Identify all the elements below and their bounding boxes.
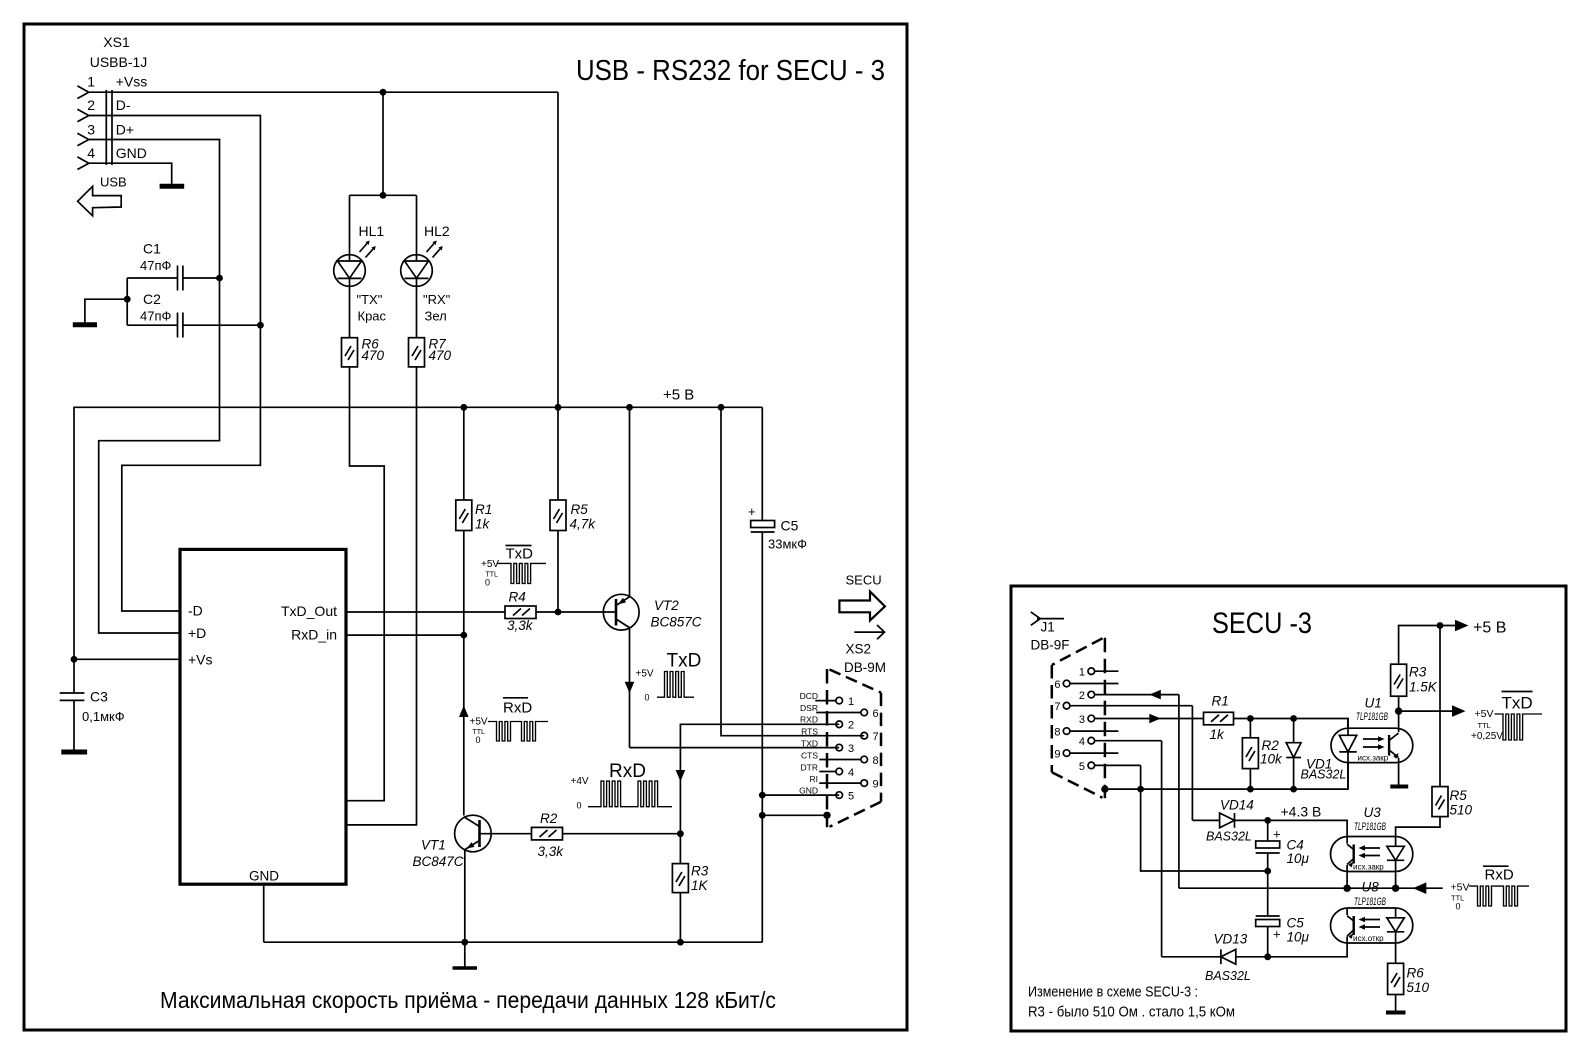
svg-text:R3 - было 510 Ом . стало 1,5: R3 - было 510 Ом . стало 1,5 кОм: [1028, 1004, 1235, 1021]
svg-text:исх.закр: исх.закр: [1358, 754, 1389, 763]
ground under XS1 pin4: [160, 184, 185, 189]
svg-text:R2: R2: [540, 811, 558, 826]
connector J1 symbol: [1031, 612, 1064, 625]
svg-text:0: 0: [1456, 902, 1461, 912]
svg-text:DB-9F: DB-9F: [1031, 638, 1070, 653]
svg-text:+: +: [1273, 927, 1281, 942]
IC box: [180, 549, 346, 884]
RxD input arrow: [1413, 882, 1427, 894]
junction U3 U8 right: [1392, 885, 1399, 892]
svg-text:10μ: 10μ: [1287, 851, 1310, 866]
svg-text:VT2: VT2: [654, 598, 679, 613]
wire IC GND down: [263, 884, 265, 942]
svg-text:GND: GND: [799, 786, 818, 796]
svg-text:8: 8: [873, 755, 879, 767]
svg-text:HL2: HL2: [424, 223, 450, 239]
junction R1 R2: [1247, 715, 1254, 722]
svg-text:VD13: VD13: [1214, 932, 1248, 947]
svg-text:Зел: Зел: [425, 309, 447, 324]
svg-text:U3: U3: [1364, 805, 1382, 820]
wire R2 to RXD node: [563, 833, 681, 835]
pin 2 arrow: [77, 109, 88, 122]
wire R4 to VT2 base: [536, 611, 616, 613]
svg-text:1: 1: [87, 74, 95, 90]
wire pin7 to VD14: [1191, 706, 1193, 821]
pin 4 arrow: [77, 157, 88, 170]
svg-text:исх.откр: исх.откр: [1353, 934, 1384, 943]
svg-text:USB - RS232 for SECU - 3: USB - RS232 for SECU - 3: [576, 55, 885, 87]
svg-text:R4: R4: [509, 590, 526, 605]
svg-text:6: 6: [1054, 679, 1060, 691]
svg-text:+5 В: +5 В: [1473, 620, 1506, 637]
svg-text:USB: USB: [100, 175, 127, 190]
svg-text:4: 4: [848, 767, 854, 779]
LED HL1: [334, 195, 376, 337]
wire pin2 vertical: [1178, 695, 1180, 889]
svg-text:SECU -3: SECU -3: [1212, 607, 1312, 640]
svg-text:HL1: HL1: [359, 223, 385, 239]
left panel frame: [24, 24, 907, 1030]
svg-text:+5V: +5V: [1451, 882, 1470, 894]
capacitor C1: [127, 266, 219, 291]
capacitor C3: [60, 659, 85, 749]
SECU thin arrow: [854, 625, 884, 639]
pin 3 arrow: [77, 133, 88, 146]
junction LED branch: [380, 192, 387, 199]
capacitor C4: [1256, 820, 1280, 916]
junction bus shell: [1101, 785, 1108, 792]
svg-text:47пФ: 47пФ: [140, 309, 171, 324]
J1 pin 4: [1079, 736, 1162, 748]
resistor R5: [550, 500, 566, 612]
svg-text:TLP181GB: TLP181GB: [1354, 821, 1386, 833]
SECU big arrow: [839, 592, 885, 621]
svg-text:4,7k: 4,7k: [570, 517, 597, 532]
+5V rail: [74, 407, 762, 659]
connector XS2 dashed outline: [827, 669, 881, 827]
svg-text:"RX": "RX": [423, 292, 451, 307]
svg-text:9: 9: [1054, 749, 1060, 761]
wire TxD TTL output: [1399, 710, 1452, 712]
svg-text:6: 6: [873, 708, 879, 720]
junction rail VT2 emitter: [626, 404, 633, 411]
waveform TxD-bar label overline: [506, 545, 532, 547]
svg-text:7: 7: [1054, 701, 1060, 713]
svg-text:GND: GND: [116, 145, 147, 161]
svg-text:+5 В: +5 В: [663, 387, 694, 404]
ground under C1 C2: [73, 322, 97, 327]
svg-text:0: 0: [577, 801, 582, 811]
svg-text:0: 0: [485, 578, 490, 588]
svg-text:1K: 1K: [691, 878, 709, 893]
junction C2 to D-: [257, 322, 264, 329]
+5V arrow: [1455, 620, 1469, 632]
svg-text:510: 510: [1407, 980, 1430, 995]
wire RTS line: [721, 407, 864, 735]
svg-text:TLP181GB: TLP181GB: [1354, 896, 1386, 908]
wire +Vss pin1 to vertical: [89, 91, 558, 93]
svg-text:5: 5: [1079, 761, 1085, 773]
resistor R3: [1391, 664, 1407, 711]
svg-text:"TX": "TX": [357, 292, 383, 307]
resistor R7: [409, 338, 425, 367]
wire R7 down to IC: [346, 367, 417, 825]
transistor VT2: [603, 407, 639, 747]
ground under U1: [1390, 785, 1408, 789]
wire LED branch horizontal: [350, 194, 417, 196]
svg-text:R5: R5: [1450, 788, 1468, 803]
wire TXD line VT2 collector to DB9: [630, 747, 840, 749]
waveform TxD-bar trace: [497, 563, 547, 583]
connector J1 dashed outline: [1052, 638, 1105, 798]
junction rail C5 branch: [718, 404, 725, 411]
svg-text:10k: 10k: [1260, 752, 1283, 767]
XS2 pin 4 DTR: [801, 762, 855, 779]
svg-text:C5: C5: [781, 518, 799, 534]
svg-text:2: 2: [848, 720, 854, 732]
USB arrow: [78, 186, 122, 216]
junction bus pin5: [1137, 786, 1144, 793]
XS2 pin 5 GND: [799, 786, 854, 803]
svg-text:+Vss: +Vss: [116, 74, 148, 90]
svg-text:1k: 1k: [475, 517, 491, 532]
svg-text:TLP181GB: TLP181GB: [1356, 711, 1388, 723]
svg-text:TxD: TxD: [667, 651, 702, 672]
svg-text:R1: R1: [475, 502, 492, 517]
wire D+ pin3: [89, 140, 220, 634]
resistor R2: [532, 827, 563, 840]
ground bar under VT1: [453, 966, 478, 969]
svg-text:XS2: XS2: [846, 642, 872, 657]
waveform TxD-bar right label overline: [1502, 691, 1533, 693]
J1 pin 3 arrow: [1149, 714, 1161, 724]
svg-text:TxD: TxD: [1502, 694, 1533, 713]
junction bus R2: [1247, 786, 1254, 793]
junction VT1 emitter rail: [461, 939, 468, 946]
svg-text:RxD_in: RxD_in: [291, 627, 337, 643]
svg-text:исх.закр: исх.закр: [1353, 863, 1384, 872]
junction rail R1: [460, 404, 467, 411]
svg-text:3: 3: [87, 122, 95, 138]
svg-text:BAS32L: BAS32L: [1205, 969, 1251, 983]
svg-text:1.5K: 1.5K: [1409, 680, 1438, 695]
J1 pin 7: [1054, 701, 1192, 713]
wire R1 to U1 anode: [1234, 719, 1349, 729]
junction R3 U1 collector: [1395, 707, 1402, 714]
wire GND to DB9 shell: [762, 814, 827, 816]
XS2 pin 6 DSR: [800, 703, 879, 720]
wire TxD_Out to R4: [346, 611, 505, 613]
svg-text:3: 3: [1079, 714, 1085, 726]
transistor VT1: [455, 635, 492, 942]
TxD direction arrow: [625, 682, 635, 694]
junction U3 U8 left: [1343, 885, 1350, 892]
svg-text:VD14: VD14: [1220, 798, 1254, 813]
junction GND shell branch: [759, 812, 766, 819]
wire pin5 vertical: [1140, 765, 1142, 789]
resistor R1: [1204, 712, 1234, 725]
waveform RxD-bar right label overline: [1483, 865, 1509, 867]
wire R6 down to IC: [346, 367, 384, 801]
connector XS1 body: [106, 90, 112, 165]
resistor R6: [342, 338, 358, 367]
svg-text:4: 4: [1079, 736, 1085, 748]
svg-text:RxD: RxD: [609, 761, 646, 782]
junction rail R5: [555, 404, 562, 411]
svg-text:+D: +D: [188, 625, 206, 641]
waveform RxD-bar trace: [488, 722, 548, 742]
svg-text:Изменение в схеме SECU-3 :: Изменение в схеме SECU-3 :: [1028, 984, 1198, 1001]
junction shell: [823, 812, 830, 819]
junction VD14 C4: [1264, 817, 1271, 824]
svg-text:1: 1: [1079, 667, 1085, 679]
svg-text:33мкФ: 33мкФ: [768, 537, 807, 552]
waveform RxD-bar label overline: [503, 697, 528, 699]
svg-text:0: 0: [476, 735, 481, 745]
wire C1-C2 left bracket: [85, 278, 127, 325]
wire +Vss vertical to R5: [557, 92, 559, 500]
capacitor C5: [751, 407, 775, 942]
capacitor C2: [127, 313, 260, 338]
junction R1 VD1: [1290, 715, 1297, 722]
svg-text:+4.3 В: +4.3 В: [1281, 804, 1322, 820]
svg-text:BC857C: BC857C: [651, 615, 702, 630]
J1 pin 6: [1054, 679, 1118, 691]
svg-text:USBB-1J: USBB-1J: [90, 54, 148, 70]
svg-text:0: 0: [645, 693, 650, 703]
wire pin4 vertical: [1161, 741, 1163, 957]
junction R3 rail: [677, 939, 684, 946]
svg-text:RXD: RXD: [800, 715, 818, 725]
wire RXD line from DB9: [680, 724, 839, 833]
waveform TxD-bar right trace: [1495, 714, 1543, 740]
ground bus: [1105, 763, 1348, 790]
svg-text:2: 2: [1079, 690, 1085, 702]
junction C1 C2 gnd: [124, 296, 131, 303]
svg-text:3,3k: 3,3k: [507, 618, 534, 633]
ground under R6: [1386, 1011, 1406, 1015]
wire RxD input bus: [1179, 887, 1443, 889]
svg-text:U8: U8: [1362, 880, 1380, 895]
svg-text:Крас: Крас: [358, 309, 387, 324]
optocoupler U8: [1331, 908, 1413, 963]
XS2 pin 1 DCD: [800, 691, 855, 708]
waveform RxD-bar right trace: [1469, 886, 1529, 906]
wire VT1 base to R2: [480, 833, 532, 835]
svg-text:DTR: DTR: [801, 762, 818, 772]
resistor R2: [1242, 719, 1258, 790]
svg-text:R5: R5: [571, 502, 589, 517]
TxD output arrow: [1452, 705, 1466, 717]
svg-text:U1: U1: [1365, 696, 1382, 711]
wire R3 top to +5V: [1399, 626, 1455, 665]
XS2 pin 3 TXD: [801, 739, 854, 756]
RxD_in direction arrow: [459, 706, 469, 718]
svg-text:+4V: +4V: [571, 776, 589, 787]
svg-text:C1: C1: [143, 241, 161, 257]
svg-text:+: +: [1273, 827, 1281, 842]
svg-text:DCD: DCD: [800, 691, 818, 701]
resistor R1: [456, 407, 472, 635]
svg-text:R3: R3: [691, 864, 709, 879]
junction bus VD1: [1290, 786, 1297, 793]
junction +Vs C3: [71, 656, 78, 663]
svg-text:C2: C2: [143, 291, 161, 307]
svg-text:D+: D+: [116, 122, 134, 138]
ground under C3: [61, 750, 87, 755]
svg-text:1: 1: [848, 696, 854, 708]
ground under VT1: [464, 942, 466, 966]
J1 pin 3: [1079, 714, 1204, 726]
svg-text:7: 7: [873, 731, 879, 743]
svg-text:RxD: RxD: [1485, 867, 1514, 884]
svg-text:+5V: +5V: [1475, 708, 1494, 720]
svg-text:VT1: VT1: [421, 838, 446, 853]
svg-text:DSR: DSR: [800, 703, 818, 713]
junction C4 gnd branch: [1264, 868, 1271, 875]
svg-text:BAS32L: BAS32L: [1206, 830, 1252, 844]
junction RxD_in node: [460, 632, 467, 639]
svg-text:10μ: 10μ: [1287, 930, 1310, 945]
svg-text:R1: R1: [1212, 694, 1229, 709]
svg-text:RI: RI: [810, 774, 819, 784]
junction RXD R2 R3: [677, 830, 684, 837]
svg-text:J1: J1: [1041, 620, 1055, 635]
junction +5V R5: [1437, 622, 1444, 629]
junction VD13 C5: [1264, 953, 1271, 960]
optocoupler U1: [1331, 711, 1413, 789]
wire LED branch vertical: [382, 92, 384, 195]
wire GND pin4: [89, 163, 172, 185]
junction GND pin5: [759, 792, 766, 799]
diode VD13: [1162, 943, 1348, 964]
svg-text:TxD_Out: TxD_Out: [281, 603, 337, 619]
svg-text:BAS32L: BAS32L: [1301, 768, 1347, 782]
resistor R3: [672, 834, 688, 943]
capacitor C5: [1256, 916, 1280, 957]
waveform TxD trace: [657, 672, 694, 698]
diode VD1: [1286, 719, 1301, 790]
XS2 pin 7 RTS: [801, 727, 878, 744]
svg-text:+5V: +5V: [636, 669, 654, 680]
svg-text:0,1мкФ: 0,1мкФ: [82, 709, 125, 724]
svg-text:1k: 1k: [1210, 727, 1226, 742]
wire +5 left branch to +Vs: [74, 658, 180, 660]
svg-text:R6: R6: [1407, 966, 1425, 981]
XS2 pin 9 RI: [810, 774, 879, 790]
svg-text:+: +: [748, 504, 756, 519]
XS2 pin 2 RXD: [800, 715, 854, 732]
svg-text:XS1: XS1: [103, 34, 130, 50]
svg-text:DB-9M: DB-9M: [844, 660, 886, 675]
svg-text:+5V: +5V: [481, 559, 499, 570]
svg-text:RTS: RTS: [801, 727, 818, 737]
resistor R4: [505, 606, 536, 619]
svg-text:510: 510: [1450, 803, 1473, 818]
svg-text:C5: C5: [1287, 916, 1305, 931]
J1 pin 2: [1079, 690, 1179, 702]
XS2 pin 8 CTS: [801, 750, 879, 767]
junction R5 VT2 base: [555, 609, 562, 616]
J1 pin 9: [1054, 749, 1118, 761]
svg-text:RxD: RxD: [503, 700, 532, 717]
svg-text:5: 5: [848, 791, 854, 803]
svg-text:3,3k: 3,3k: [538, 844, 565, 859]
J1 pin 1: [1079, 667, 1119, 679]
svg-text:-D: -D: [188, 603, 203, 619]
svg-text:R3: R3: [1409, 665, 1427, 680]
wire GND to DB9 pin5: [762, 794, 839, 796]
svg-text:Максимальная скорость приёма -: Максимальная скорость приёма - передачи …: [160, 987, 776, 1013]
svg-text:470: 470: [362, 348, 385, 363]
wire C4 ground branch: [1141, 789, 1268, 871]
svg-text:GND: GND: [249, 869, 279, 884]
LED HL2: [401, 195, 443, 337]
pin 1 arrow: [77, 86, 88, 99]
RxD direction arrow: [676, 770, 686, 782]
svg-text:BC847C: BC847C: [413, 854, 464, 869]
svg-text:SECU: SECU: [846, 573, 882, 588]
diode VD14: [1192, 813, 1347, 837]
svg-text:9: 9: [873, 779, 879, 791]
wire D- pin2: [89, 116, 261, 612]
optocoupler U3: [1331, 837, 1413, 889]
svg-text:3: 3: [848, 743, 854, 755]
svg-text:8: 8: [1054, 727, 1060, 739]
resistor R6: [1388, 963, 1404, 1010]
svg-text:TTL: TTL: [1478, 721, 1491, 730]
svg-text:4: 4: [87, 145, 95, 161]
svg-text:2: 2: [87, 97, 95, 113]
junction C1 to D+: [216, 275, 223, 282]
svg-text:47пФ: 47пФ: [140, 258, 171, 273]
bottom ground rail: [264, 941, 763, 943]
junction +Vss LED branch: [380, 89, 387, 96]
svg-text:C3: C3: [90, 689, 108, 705]
J1 pin 5: [1079, 761, 1141, 773]
J1 pin 8: [1054, 727, 1118, 739]
svg-text:D-: D-: [116, 97, 131, 113]
resistor R5: [1396, 626, 1448, 837]
wire RxD_in to R1 bottom: [346, 634, 464, 636]
svg-text:+0,25V: +0,25V: [1471, 731, 1503, 742]
svg-text:CTS: CTS: [801, 750, 818, 760]
waveform RxD trace: [588, 781, 672, 807]
right panel frame: [1011, 586, 1566, 1031]
svg-text:TxD: TxD: [506, 546, 534, 563]
J1 pin 2 arrow: [1149, 690, 1161, 700]
svg-text:TXD: TXD: [801, 739, 818, 749]
svg-text:+5V: +5V: [470, 717, 488, 728]
svg-text:470: 470: [429, 348, 452, 363]
svg-text:+Vs: +Vs: [188, 652, 213, 668]
